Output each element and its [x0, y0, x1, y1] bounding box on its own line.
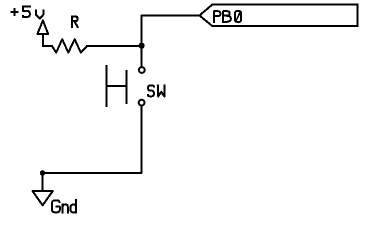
label PB0	[214, 11, 241, 22]
switch SW pushbutton contacts	[139, 67, 145, 105]
wire corner down to ground	[42, 173, 44, 191]
wire resistor to junction	[87, 45, 142, 47]
label SW	[148, 86, 164, 97]
switch SW button stem	[106, 85, 126, 87]
label +5v	[12, 6, 44, 18]
switch SW actuator bar	[125, 71, 127, 103]
label Gnd	[52, 200, 76, 213]
ground	[33, 191, 53, 205]
node junction	[139, 43, 145, 49]
resistor R	[52, 39, 87, 52]
wire switch to ground corner	[43, 106, 142, 174]
switch SW button cap	[105, 66, 107, 106]
wire junction down to switch	[141, 46, 143, 67]
power +5v arrow	[37, 21, 48, 35]
net flag PB0	[200, 4, 358, 26]
wire junction up and right to PB0 flag	[142, 16, 200, 46]
label R	[72, 17, 78, 28]
node at ground corner	[40, 170, 46, 176]
wire from +5v arrow to resistor	[43, 35, 52, 46]
